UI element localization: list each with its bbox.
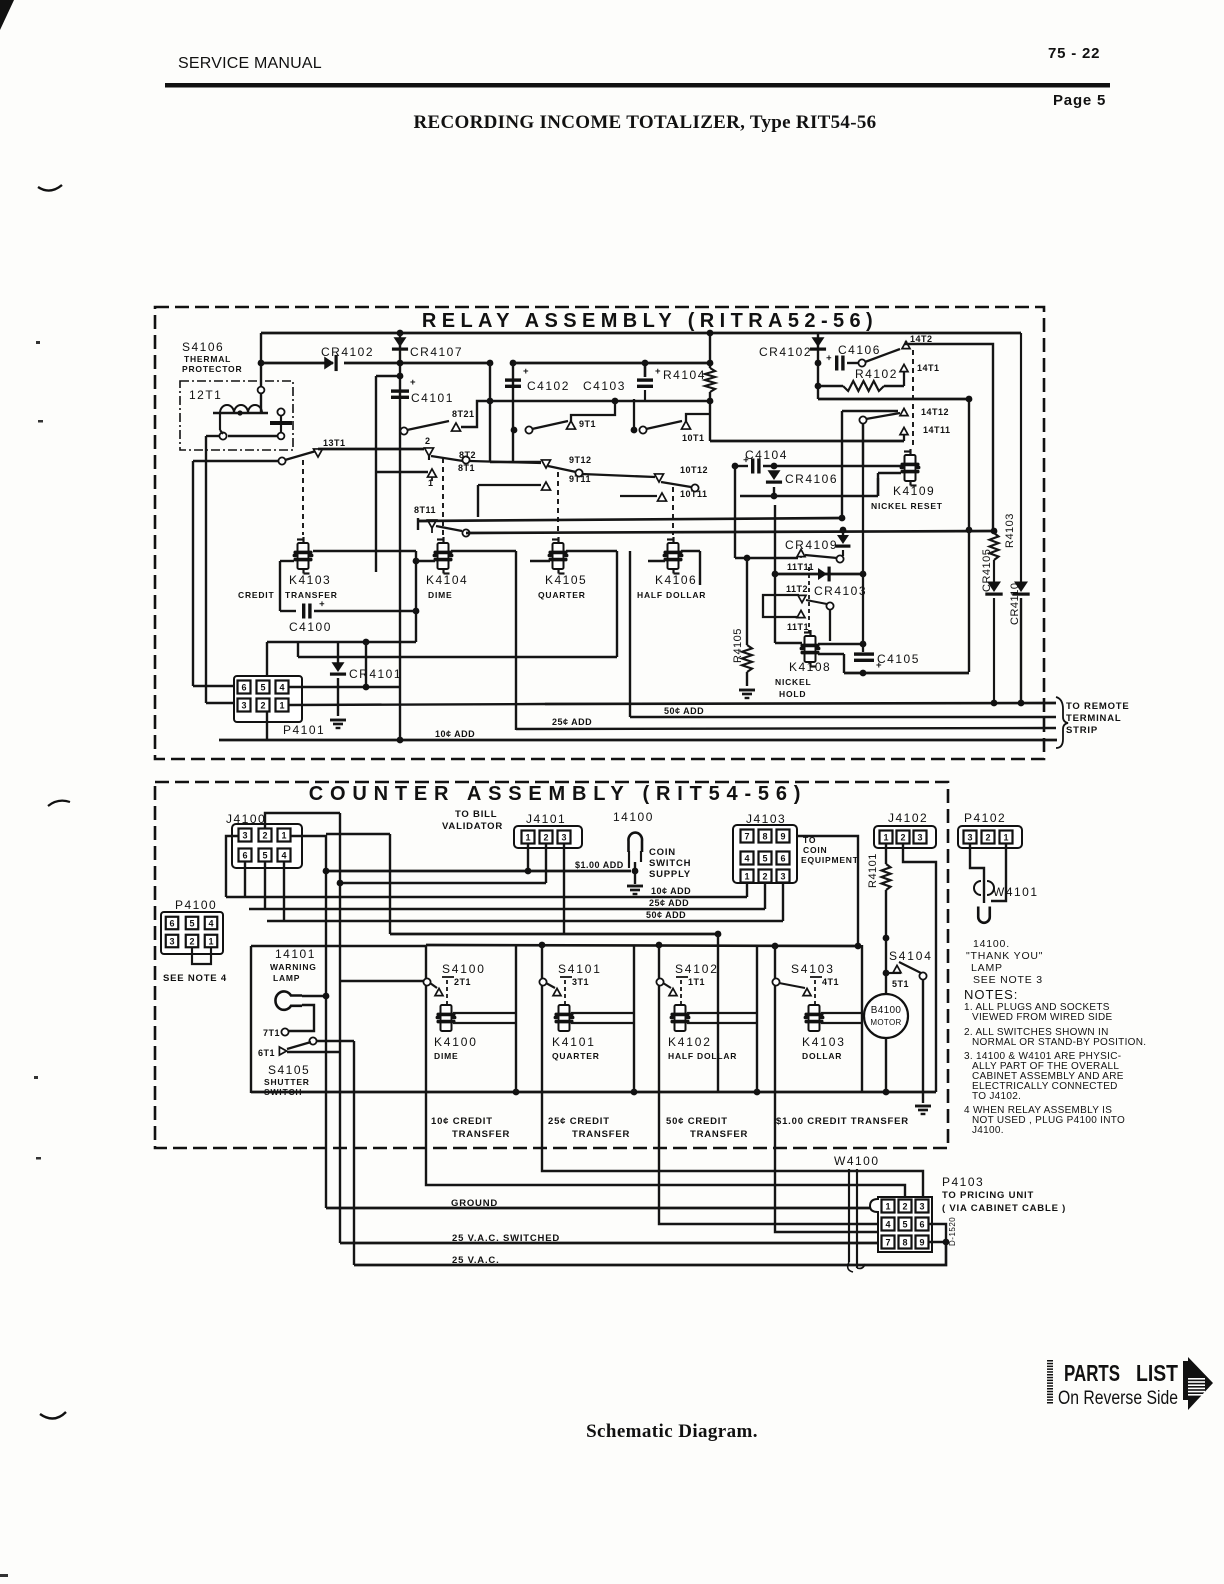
svg-text:TO BILL: TO BILL xyxy=(455,809,497,820)
svg-text:25 V.A.C.: 25 V.A.C. xyxy=(452,1255,500,1266)
svg-text:13T1: 13T1 xyxy=(323,438,346,448)
svg-text:CR4105: CR4105 xyxy=(981,549,993,592)
svg-text:K4109: K4109 xyxy=(893,484,935,498)
svg-text:D-1520: D-1520 xyxy=(948,1217,957,1246)
svg-text:CR4110: CR4110 xyxy=(1009,582,1021,625)
svg-text:12T1: 12T1 xyxy=(189,388,222,402)
svg-text:7: 7 xyxy=(885,1237,890,1247)
svg-text:6: 6 xyxy=(241,682,246,692)
svg-text:VALIDATOR: VALIDATOR xyxy=(442,821,503,832)
svg-text:25 V.A.C. SWITCHED: 25 V.A.C. SWITCHED xyxy=(452,1233,560,1244)
svg-text:8T21: 8T21 xyxy=(452,409,475,419)
svg-text:9: 9 xyxy=(780,831,785,841)
svg-text:P4103: P4103 xyxy=(942,1175,984,1189)
svg-text:8: 8 xyxy=(902,1237,907,1247)
svg-text:( VIA CABINET CABLE ): ( VIA CABINET CABLE ) xyxy=(942,1203,1066,1214)
svg-text:HALF DOLLAR: HALF DOLLAR xyxy=(637,590,706,600)
svg-text:1: 1 xyxy=(208,936,213,946)
svg-text:2: 2 xyxy=(262,830,267,840)
svg-text:1: 1 xyxy=(744,871,749,881)
svg-text:CR4102: CR4102 xyxy=(321,345,374,359)
svg-text:S4102: S4102 xyxy=(675,962,719,976)
svg-text:4: 4 xyxy=(279,682,284,692)
svg-text:6: 6 xyxy=(780,853,785,863)
svg-text:1: 1 xyxy=(1003,832,1008,842)
svg-text:W4101: W4101 xyxy=(993,885,1039,899)
svg-text:TRANSFER: TRANSFER xyxy=(690,1129,748,1140)
svg-text:P4102: P4102 xyxy=(964,811,1006,825)
svg-text:R4102: R4102 xyxy=(855,367,898,381)
svg-text:K4103: K4103 xyxy=(289,573,331,587)
svg-text:10T1: 10T1 xyxy=(682,433,705,443)
svg-text:+: + xyxy=(316,601,327,607)
svg-text:50¢ ADD: 50¢ ADD xyxy=(664,706,704,716)
svg-text:5: 5 xyxy=(902,1219,907,1229)
svg-text:NICKEL: NICKEL xyxy=(775,677,811,687)
svg-text:14T1: 14T1 xyxy=(917,363,940,373)
svg-text:EQUIPMENT: EQUIPMENT xyxy=(801,855,859,865)
svg-text:3: 3 xyxy=(919,1201,924,1211)
svg-text:1: 1 xyxy=(279,700,284,710)
svg-text:SERVICE MANUAL: SERVICE MANUAL xyxy=(178,55,322,72)
svg-text:+: + xyxy=(740,457,751,463)
svg-text:1: 1 xyxy=(883,832,888,842)
svg-text:LIST: LIST xyxy=(1136,1360,1178,1386)
svg-text:R4103: R4103 xyxy=(1004,513,1016,548)
svg-text:10T12: 10T12 xyxy=(680,465,708,475)
svg-text:TO J4102.: TO J4102. xyxy=(972,1091,1021,1102)
svg-text:7: 7 xyxy=(744,831,749,841)
svg-text:R4104: R4104 xyxy=(663,368,706,382)
svg-text:3T1: 3T1 xyxy=(572,977,589,987)
svg-text:WARNING: WARNING xyxy=(270,962,317,972)
svg-text:6: 6 xyxy=(919,1219,924,1229)
svg-text:J4101: J4101 xyxy=(526,812,566,826)
svg-text:NOTES:: NOTES: xyxy=(964,987,1018,1002)
svg-text:CR4109: CR4109 xyxy=(785,538,838,552)
svg-text:3: 3 xyxy=(967,832,972,842)
svg-text:HOLD: HOLD xyxy=(779,689,806,699)
svg-text:50¢ ADD: 50¢ ADD xyxy=(646,910,686,920)
svg-text:SWITCH: SWITCH xyxy=(649,858,691,869)
svg-text:9T1: 9T1 xyxy=(579,419,596,429)
svg-text:14101: 14101 xyxy=(275,947,316,961)
svg-text:11T2: 11T2 xyxy=(786,584,808,594)
svg-text:TO PRICING UNIT: TO PRICING UNIT xyxy=(942,1190,1034,1201)
svg-text:P4101: P4101 xyxy=(283,723,325,737)
svg-text:8T2: 8T2 xyxy=(459,450,476,460)
svg-text:CR4102: CR4102 xyxy=(759,345,812,359)
svg-text:PROTECTOR: PROTECTOR xyxy=(182,364,242,374)
svg-text:Schematic Diagram.: Schematic Diagram. xyxy=(586,1421,758,1442)
svg-text:6: 6 xyxy=(242,850,247,860)
svg-text:+: + xyxy=(523,366,529,377)
svg-text:1: 1 xyxy=(428,478,434,488)
svg-text:J4102: J4102 xyxy=(888,811,928,825)
svg-text:8T11: 8T11 xyxy=(414,505,436,515)
svg-text:S4100: S4100 xyxy=(442,962,486,976)
svg-text:$1.00 CREDIT TRANSFER: $1.00 CREDIT TRANSFER xyxy=(776,1116,909,1127)
svg-text:COIN: COIN xyxy=(649,847,676,858)
svg-text:8T1: 8T1 xyxy=(458,463,475,473)
svg-text:SHUTTER: SHUTTER xyxy=(264,1077,310,1087)
svg-text:VIEWED FROM WIRED SIDE: VIEWED FROM WIRED SIDE xyxy=(972,1012,1113,1023)
svg-text:9: 9 xyxy=(919,1237,924,1247)
svg-text:TRANSFER: TRANSFER xyxy=(285,590,338,600)
svg-text:COIN: COIN xyxy=(803,845,827,855)
svg-text:QUARTER: QUARTER xyxy=(552,1051,600,1061)
svg-text:CR4101: CR4101 xyxy=(349,667,402,681)
svg-text:5: 5 xyxy=(260,682,265,692)
svg-text:8: 8 xyxy=(762,831,767,841)
svg-text:S4104: S4104 xyxy=(889,949,933,963)
svg-text:TERMINAL: TERMINAL xyxy=(1066,713,1121,724)
svg-text:10¢ ADD: 10¢ ADD xyxy=(651,886,691,896)
svg-text:K4106: K4106 xyxy=(655,573,697,587)
svg-text:K4103: K4103 xyxy=(802,1035,846,1049)
svg-text:5: 5 xyxy=(262,850,267,860)
svg-text:P4100: P4100 xyxy=(175,898,217,912)
svg-text:LAMP: LAMP xyxy=(273,973,300,983)
svg-text:4T1: 4T1 xyxy=(822,977,839,987)
svg-text:QUARTER: QUARTER xyxy=(538,590,586,600)
svg-text:3: 3 xyxy=(169,936,174,946)
svg-text:3: 3 xyxy=(241,700,246,710)
svg-text:DOLLAR: DOLLAR xyxy=(802,1051,842,1061)
svg-text:C4103: C4103 xyxy=(583,379,626,393)
svg-text:K4108: K4108 xyxy=(789,660,831,674)
svg-text:K4102: K4102 xyxy=(668,1035,712,1049)
svg-text:14T2: 14T2 xyxy=(910,334,933,344)
svg-text:+: + xyxy=(823,355,834,361)
svg-text:5: 5 xyxy=(189,918,194,928)
svg-text:LAMP: LAMP xyxy=(971,962,1003,974)
svg-text:2: 2 xyxy=(902,1201,907,1211)
svg-text:11T11: 11T11 xyxy=(787,562,814,572)
svg-text:C4105: C4105 xyxy=(877,652,920,666)
svg-text:"THANK YOU": "THANK YOU" xyxy=(966,950,1043,962)
svg-text:2T1: 2T1 xyxy=(454,977,471,987)
svg-text:14T11: 14T11 xyxy=(923,425,951,435)
svg-text:HALF DOLLAR: HALF DOLLAR xyxy=(668,1051,737,1061)
svg-text:B4100: B4100 xyxy=(871,1005,902,1016)
svg-text:J4100.: J4100. xyxy=(972,1125,1004,1136)
svg-text:1: 1 xyxy=(885,1201,890,1211)
svg-text:+: + xyxy=(410,377,416,388)
svg-text:14100: 14100 xyxy=(613,810,654,824)
svg-text:75 - 22: 75 - 22 xyxy=(1048,45,1100,62)
svg-text:3: 3 xyxy=(242,830,247,840)
svg-text:2: 2 xyxy=(985,832,990,842)
svg-text:NORMAL OR STAND-BY POSITION.: NORMAL OR STAND-BY POSITION. xyxy=(972,1037,1146,1048)
svg-text:4: 4 xyxy=(744,853,749,863)
svg-text:+: + xyxy=(655,366,661,377)
svg-text:K4105: K4105 xyxy=(545,573,587,587)
svg-text:C4106: C4106 xyxy=(838,343,881,357)
svg-text:14100.: 14100. xyxy=(973,938,1010,950)
svg-text:9T12: 9T12 xyxy=(569,455,592,465)
svg-text:10¢ CREDIT: 10¢ CREDIT xyxy=(431,1116,493,1127)
svg-text:4: 4 xyxy=(885,1219,890,1229)
svg-text:Page 5: Page 5 xyxy=(1053,92,1106,109)
svg-text:25¢ CREDIT: 25¢ CREDIT xyxy=(548,1116,610,1127)
svg-text:1: 1 xyxy=(281,830,286,840)
svg-text:STRIP: STRIP xyxy=(1066,725,1098,736)
svg-text:CR4103: CR4103 xyxy=(814,584,867,598)
svg-text:2: 2 xyxy=(543,832,548,842)
svg-text:2: 2 xyxy=(260,700,265,710)
svg-text:CR4107: CR4107 xyxy=(410,345,463,359)
svg-text:R4101: R4101 xyxy=(867,853,879,888)
svg-text:S4106: S4106 xyxy=(182,340,224,354)
svg-text:5T1: 5T1 xyxy=(892,979,909,989)
svg-text:SEE NOTE 3: SEE NOTE 3 xyxy=(973,974,1043,986)
svg-text:11T1: 11T1 xyxy=(787,622,809,632)
svg-text:On Reverse Side: On Reverse Side xyxy=(1058,1388,1178,1409)
svg-text:2: 2 xyxy=(189,936,194,946)
svg-text:COUNTER ASSEMBLY (RIT54-56): COUNTER ASSEMBLY (RIT54-56) xyxy=(309,783,807,805)
svg-text:PARTS: PARTS xyxy=(1064,1360,1120,1386)
svg-text:5: 5 xyxy=(762,853,767,863)
svg-text:GROUND: GROUND xyxy=(451,1198,498,1209)
svg-text:$1.00 ADD: $1.00 ADD xyxy=(575,860,624,870)
svg-text:K4104: K4104 xyxy=(426,573,468,587)
svg-text:2: 2 xyxy=(425,436,431,446)
svg-text:THERMAL: THERMAL xyxy=(184,354,231,364)
svg-text:TRANSFER: TRANSFER xyxy=(452,1129,510,1140)
svg-text:J4103: J4103 xyxy=(746,812,786,826)
svg-text:3: 3 xyxy=(917,832,922,842)
svg-text:3: 3 xyxy=(561,832,566,842)
svg-text:6: 6 xyxy=(169,918,174,928)
svg-text:C4101: C4101 xyxy=(411,391,454,405)
svg-text:NICKEL RESET: NICKEL RESET xyxy=(871,501,943,511)
svg-text:2: 2 xyxy=(900,832,905,842)
svg-text:1: 1 xyxy=(525,832,530,842)
svg-text:10¢ ADD: 10¢ ADD xyxy=(435,729,475,739)
svg-text:S4105: S4105 xyxy=(268,1063,310,1077)
svg-text:1T1: 1T1 xyxy=(688,977,705,987)
svg-text:6T1: 6T1 xyxy=(258,1048,275,1058)
svg-text:7T1: 7T1 xyxy=(263,1028,280,1038)
svg-text:S4103: S4103 xyxy=(791,962,835,976)
svg-text:C4102: C4102 xyxy=(527,379,570,393)
svg-text:SUPPLY: SUPPLY xyxy=(649,869,691,880)
svg-text:RELAY ASSEMBLY (RITRA52-56): RELAY ASSEMBLY (RITRA52-56) xyxy=(422,310,878,332)
svg-text:DIME: DIME xyxy=(434,1051,458,1061)
svg-text:14T12: 14T12 xyxy=(921,407,949,417)
svg-text:SEE NOTE 4: SEE NOTE 4 xyxy=(163,973,227,984)
svg-text:W4100: W4100 xyxy=(834,1154,880,1168)
svg-text:CREDIT: CREDIT xyxy=(238,590,274,600)
svg-text:TRANSFER: TRANSFER xyxy=(572,1129,630,1140)
svg-text:RECORDING INCOME TOTALIZER, Ty: RECORDING INCOME TOTALIZER, Type RIT54-5… xyxy=(414,112,877,133)
svg-text:S4101: S4101 xyxy=(558,962,602,976)
svg-text:MOTOR: MOTOR xyxy=(870,1018,901,1027)
svg-text:25¢ ADD: 25¢ ADD xyxy=(552,717,592,727)
svg-text:CR4106: CR4106 xyxy=(785,472,838,486)
svg-text:DIME: DIME xyxy=(428,590,452,600)
svg-text:50¢ CREDIT: 50¢ CREDIT xyxy=(666,1116,728,1127)
svg-text:2: 2 xyxy=(762,871,767,881)
svg-text:25¢ ADD: 25¢ ADD xyxy=(649,898,689,908)
svg-text:K4100: K4100 xyxy=(434,1035,478,1049)
svg-text:K4101: K4101 xyxy=(552,1035,596,1049)
svg-text:4: 4 xyxy=(208,918,213,928)
svg-text:C4100: C4100 xyxy=(289,620,332,634)
svg-text:3: 3 xyxy=(780,871,785,881)
svg-text:TO REMOTE: TO REMOTE xyxy=(1066,701,1130,712)
svg-text:4: 4 xyxy=(281,850,286,860)
